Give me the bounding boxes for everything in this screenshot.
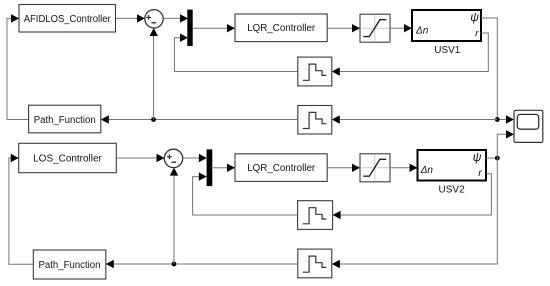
- wire: mux M2 output to LQR_Controller (bottom) input: [211, 164, 235, 172]
- wire: LQR_Controller output to saturation SAT1: [327, 24, 360, 32]
- svg-text:USV2: USV2: [439, 185, 466, 196]
- wire: feedback Path_Function(bottom) output to LOS_Controller input: [9, 154, 33, 264]
- sum junction S2: [164, 149, 182, 167]
- svg-text:ψ: ψ: [470, 10, 479, 24]
- block LQR_Controller (top): [235, 14, 327, 42]
- wire: saturation SAT2 output to USV2 input: [390, 164, 418, 172]
- wire: USV1 r output to pulse P1: [332, 33, 489, 76]
- block LQR_Controller (bottom): [235, 154, 327, 182]
- svg-text:AFIDLOS_Controller: AFIDLOS_Controller: [24, 14, 112, 25]
- block Path_Function (bottom): [33, 250, 106, 279]
- svg-text:Path_Function: Path_Function: [39, 260, 101, 271]
- pulse block PB (repeating sequence stair, bottom): [298, 249, 332, 278]
- saturation block SAT2: [360, 154, 390, 182]
- sum junction S1: [145, 10, 163, 28]
- saturation block SAT1: [360, 14, 390, 42]
- wire: pulse P1 output to mux M1 input2: [175, 34, 298, 72]
- svg-text:ψ: ψ: [473, 150, 482, 164]
- wire: pulse PB output to Path_Function(bottom) with tap to sum S2: [106, 260, 298, 268]
- wire: USV2 psi output to junction J2: [486, 157, 497, 159]
- block Path_Function (top): [29, 105, 101, 133]
- mux M2: [207, 149, 213, 186]
- wire: mux M1 output to LQR_Controller U2 input: [193, 24, 235, 32]
- svg-text:Δn: Δn: [415, 26, 429, 37]
- wire: pulse PM output to Path_Function(top) with tap to sum S1: [101, 115, 298, 123]
- wire: junction J1 to pulse PM (psi1 feedback): [332, 115, 498, 123]
- svg-text:LQR_Controller: LQR_Controller: [247, 163, 316, 174]
- scope block: [514, 110, 543, 142]
- block LOS_Controller: [19, 143, 117, 172]
- svg-text:LQR_Controller: LQR_Controller: [247, 23, 316, 34]
- label USV2: [439, 185, 466, 196]
- block USV2: [418, 150, 487, 181]
- wire: LOS_Controller output to sum S2: [116, 154, 164, 162]
- wire: LQR_Controller (bottom) output to saturation SAT2: [327, 164, 360, 172]
- wire: saturation SAT1 output to USV1 input: [390, 24, 412, 32]
- svg-text:USV1: USV1: [434, 45, 461, 56]
- svg-text:Path_Function: Path_Function: [34, 115, 96, 126]
- wire: feedback Path_Function(top) output to AFIDLOS_Controller input: [7, 14, 29, 119]
- svg-text:Δn: Δn: [420, 165, 434, 176]
- block AFIDLOS_Controller: [19, 5, 116, 33]
- pulse block PM (repeating sequence stair, middle): [298, 106, 332, 135]
- wire: USV1 psi output to junction J1 and scope input1: [481, 18, 514, 124]
- wire: junction J4 up to sum S2 minus input: [170, 168, 178, 264]
- junction J4 (tap to sum S2 minus): [172, 262, 177, 267]
- svg-text:LOS_Controller: LOS_Controller: [33, 153, 102, 164]
- junction J1: [495, 117, 500, 122]
- wire: AFIDLOS_Controller output to sum S1: [116, 14, 145, 22]
- wire: junction J3 up to sum S1 minus input: [150, 28, 158, 120]
- mux M1: [187, 10, 192, 46]
- wire: junction J2 up to scope input2: [497, 130, 514, 158]
- pulse block P2 (repeating sequence stair, row2): [298, 201, 333, 230]
- wire: sum S2 output to mux M2 input1: [183, 154, 207, 162]
- wire: USV2 r output to pulse P2: [333, 174, 492, 219]
- junction J3 (tap to sum S1 minus): [151, 117, 156, 122]
- wire: sum S1 output to mux M1 input1: [163, 14, 188, 22]
- wire: pulse P2 output to mux M2 input2: [193, 172, 298, 215]
- junction J2: [495, 156, 500, 161]
- pulse block P1 (repeating sequence stair, row1): [298, 57, 332, 86]
- wire: junction J2 down to pulse PB (psi2 feedback): [332, 158, 498, 268]
- block USV1: [412, 10, 481, 41]
- label USV1: [434, 45, 461, 56]
